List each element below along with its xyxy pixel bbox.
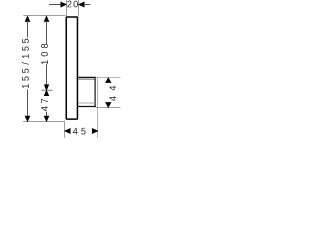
dim 20 label bbox=[67, 1, 78, 8]
handle top edge bbox=[78, 77, 96, 79]
extension line: horizontal bottom for 155/47 bbox=[23, 121, 64, 123]
dim 44 extension line bottom bbox=[96, 107, 121, 109]
dim 155/155 top arrow bbox=[25, 16, 30, 21]
handle inner top line bbox=[78, 79, 95, 81]
dim 108 lower stem bbox=[46, 64, 48, 85]
dim 44 extension line top bbox=[96, 77, 121, 79]
handle bottom edge bbox=[78, 106, 96, 108]
hourglass arrow upper (108 bottom) bbox=[44, 85, 48, 90]
handle right edge bbox=[94, 77, 96, 107]
dim 45 left arrow bbox=[65, 129, 70, 134]
dim 108 top arrow bbox=[44, 16, 49, 21]
projection line at handle front bbox=[97, 78, 99, 138]
dim 20 right tail bbox=[84, 4, 90, 6]
dim 20 right arrow bbox=[79, 2, 84, 7]
dim 155/155 lower stem bbox=[27, 89, 29, 116]
dim 47 lower stem bbox=[46, 112, 48, 117]
dim 155/155 bottom arrow bbox=[25, 116, 30, 121]
extension line: horizontal top for 155 bbox=[23, 15, 65, 17]
dim 155/155 upper stem bbox=[27, 21, 29, 38]
dim 20 left tail bbox=[49, 4, 61, 6]
dim 20 left arrow bbox=[61, 2, 66, 7]
dim 45 right arrow bbox=[92, 129, 97, 134]
extension line: top-left of 20 dim bbox=[66, 0, 68, 16]
dim 47 bottom arrow bbox=[44, 116, 49, 121]
dim 108 upper stem bbox=[46, 21, 48, 44]
hourglass tick line bbox=[42, 89, 53, 91]
dim 44 label bbox=[109, 86, 116, 101]
dim 44 bottom arrow bbox=[106, 103, 111, 108]
dim 47 label bbox=[41, 99, 48, 111]
wall plate outline (side view) bbox=[66, 17, 77, 119]
dim 44 top arrow bbox=[106, 78, 111, 83]
hourglass arrow lower (47 top) bbox=[44, 90, 48, 95]
dim 45 left extension line bbox=[64, 121, 66, 138]
dim 108 label bbox=[41, 44, 48, 64]
dim 45 label bbox=[73, 128, 86, 135]
extension line: top-right of 20 dim bbox=[78, 0, 80, 17]
dim 155/155 label bbox=[22, 39, 29, 88]
handle inner bottom line bbox=[78, 102, 95, 104]
